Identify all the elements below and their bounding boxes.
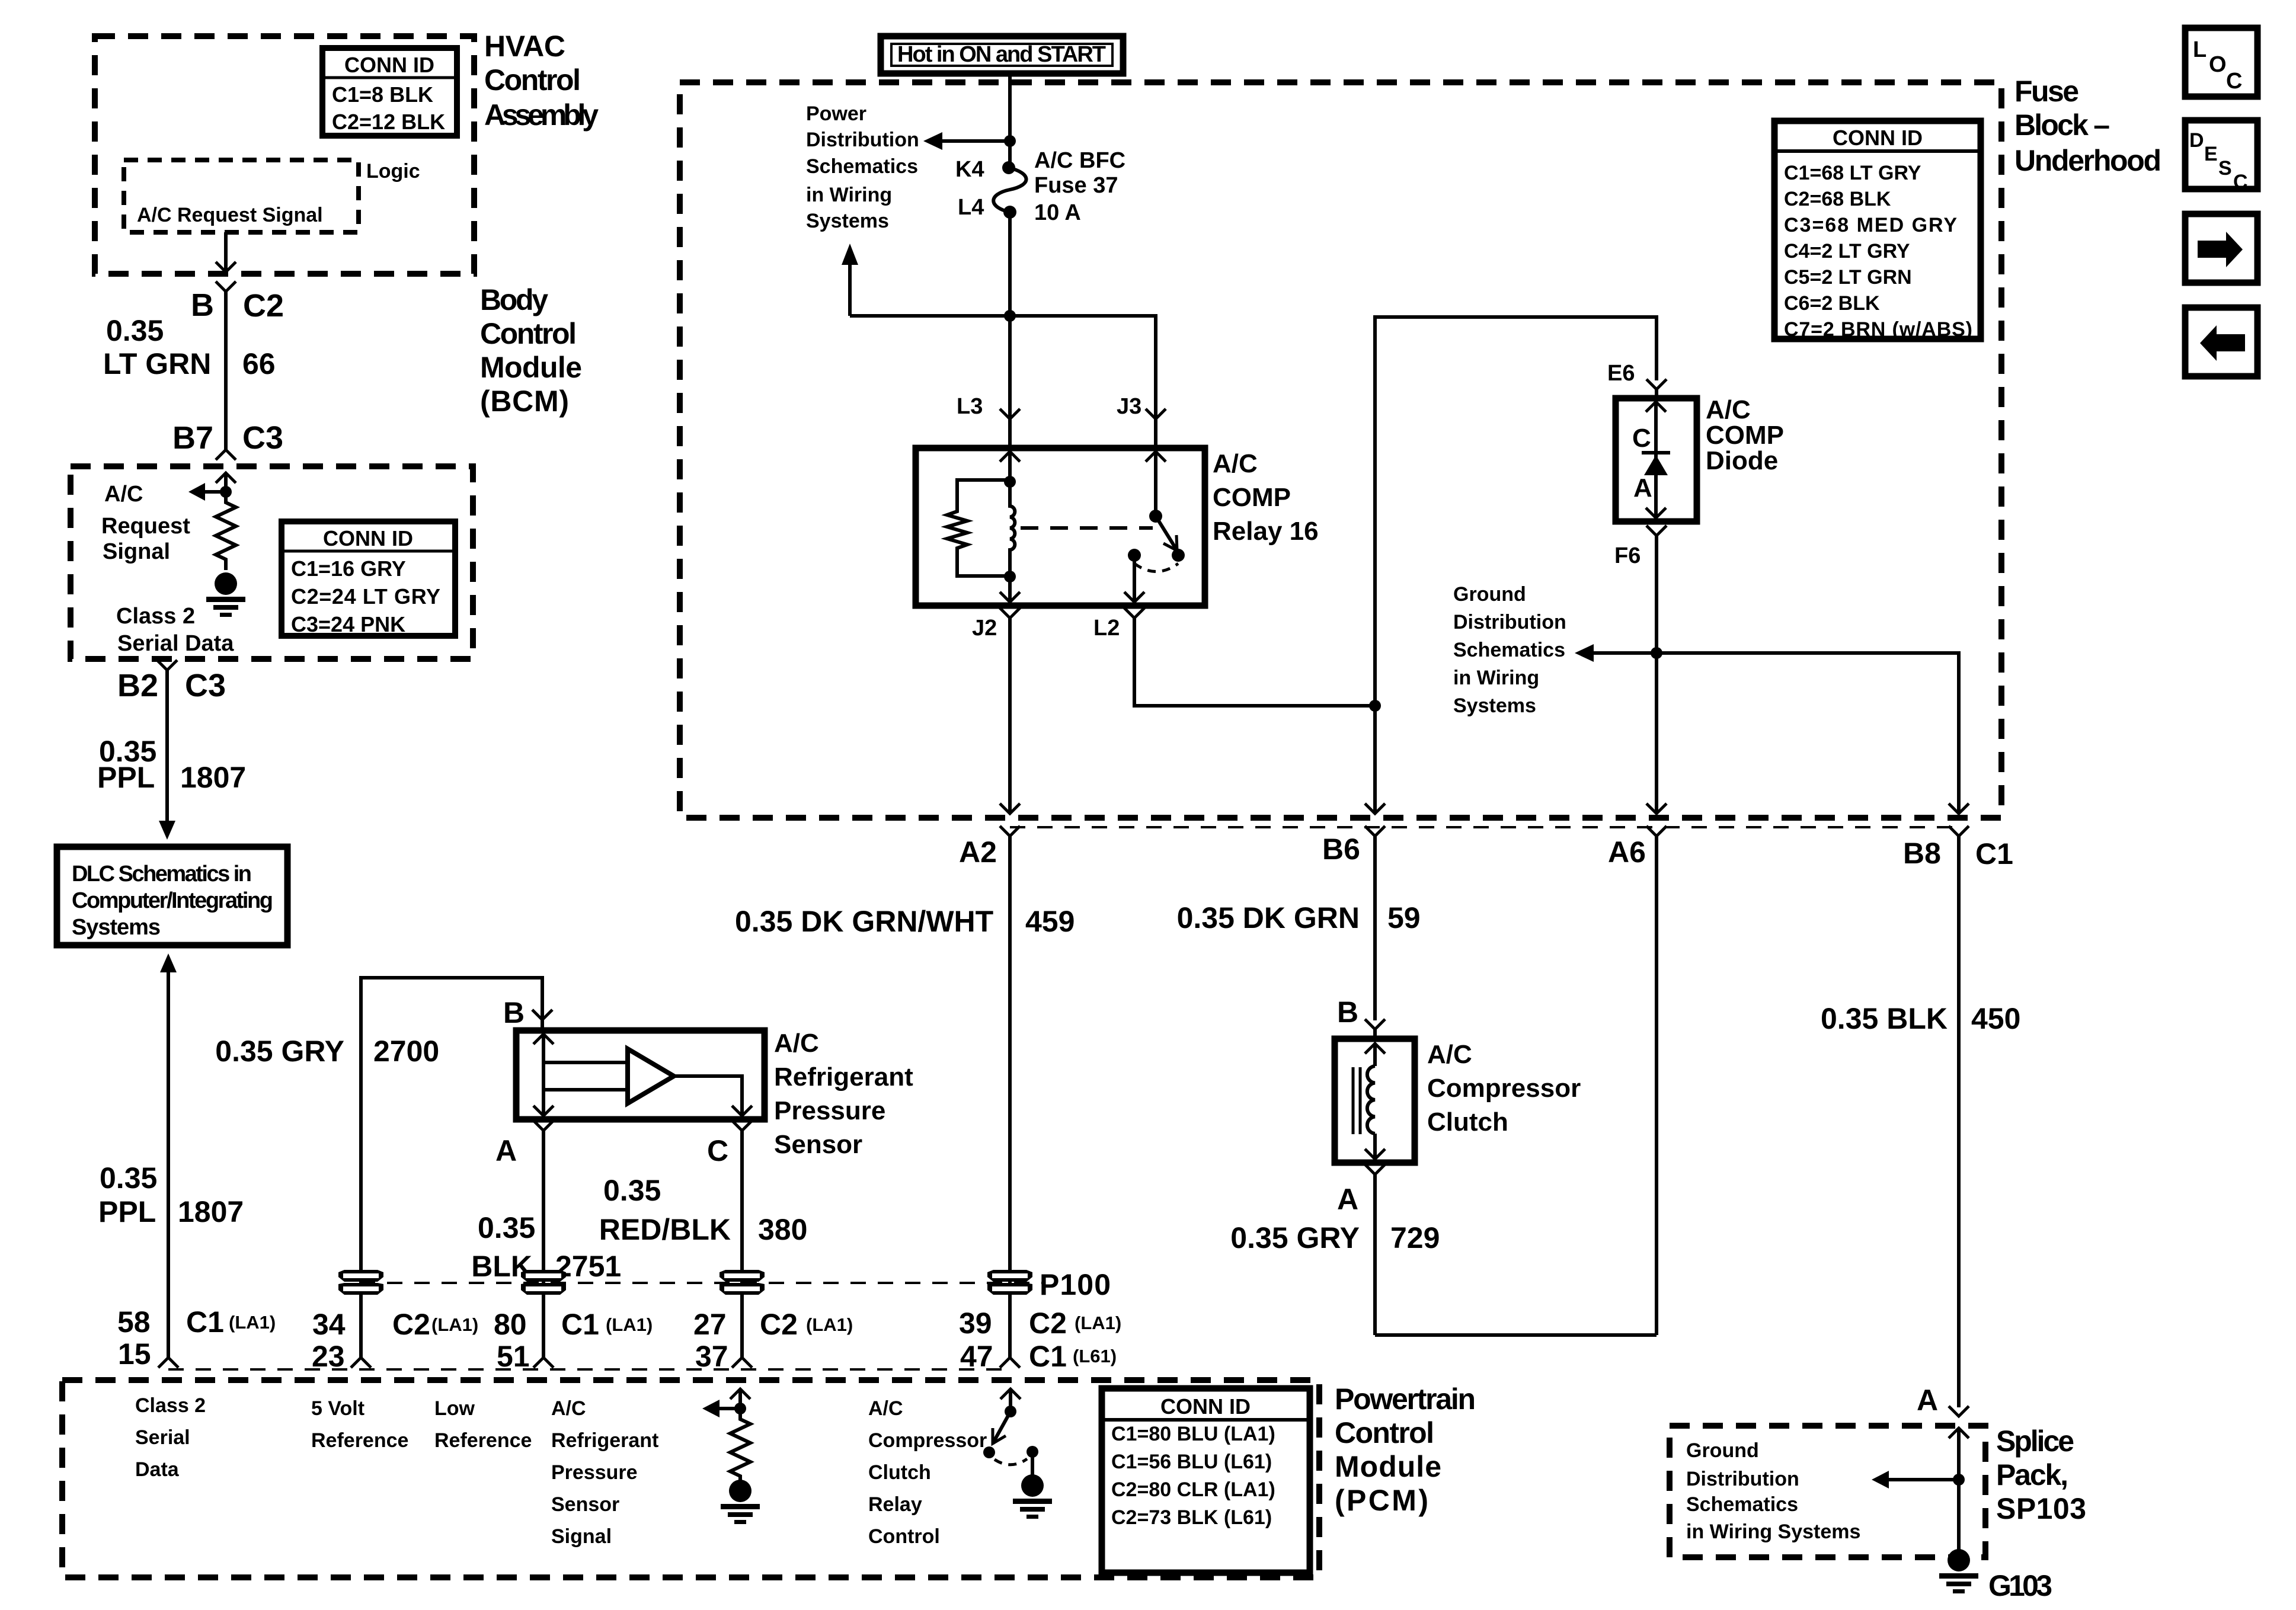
svg-text:Body: Body: [480, 283, 548, 316]
HVAC CONN ID table: [322, 48, 457, 136]
svg-text:Control: Control: [484, 63, 581, 97]
svg-text:C1: C1: [1029, 1340, 1067, 1373]
svg-text:(LA1): (LA1): [606, 1314, 653, 1335]
svg-text:C2: C2: [243, 288, 284, 324]
sensor amplifier triangle: [628, 1049, 674, 1103]
splice entry arrow: [1949, 1428, 1969, 1480]
svg-text:Pressure: Pressure: [774, 1096, 885, 1125]
wire fuse to lower junction: [1008, 212, 1012, 316]
wire label 0.35 BLK 2751: [471, 1211, 621, 1283]
svg-text:A/C: A/C: [868, 1397, 903, 1420]
svg-text:A/C: A/C: [774, 1029, 819, 1058]
svg-text:L2: L2: [1093, 616, 1120, 641]
relay coil bottom junction dot: [1004, 571, 1016, 582]
A/C COMP Relay 16 box: [916, 448, 1205, 606]
relay switch input arrow (J3): [1146, 452, 1166, 516]
svg-text:34: 34: [312, 1308, 346, 1341]
svg-text:27: 27: [693, 1308, 727, 1341]
wire L2 to B6 junction: [1134, 618, 1375, 706]
ground distribution arrow (splice): [1872, 1471, 1959, 1489]
svg-text:K4: K4: [955, 157, 984, 182]
svg-text:Refrigerant: Refrigerant: [774, 1062, 913, 1092]
svg-text:C2=80 CLR (LA1): C2=80 CLR (LA1): [1111, 1478, 1275, 1501]
svg-text:58: 58: [117, 1305, 151, 1339]
svg-text:15: 15: [118, 1337, 151, 1371]
clutch plates: [1353, 1067, 1360, 1134]
next page arrow icon: [2185, 214, 2257, 283]
switch blade arrow: [1156, 516, 1177, 550]
svg-text:Fuse 37: Fuse 37: [1034, 173, 1118, 198]
svg-text:C5=2 LT GRN: C5=2 LT GRN: [1784, 266, 1912, 289]
svg-text:in Wiring Systems: in Wiring Systems: [1686, 1521, 1860, 1543]
svg-text:0.35 GRY: 0.35 GRY: [1230, 1221, 1360, 1254]
svg-text:D: D: [2189, 129, 2204, 152]
connector A (splice): [1949, 1406, 1969, 1416]
svg-text:Compressor: Compressor: [1427, 1074, 1581, 1103]
svg-text:Distribution: Distribution: [1453, 611, 1566, 633]
PCM dashed box: [62, 1380, 1319, 1577]
svg-text:Sensor: Sensor: [551, 1493, 619, 1516]
svg-text:A: A: [495, 1134, 517, 1167]
svg-text:450: 450: [1971, 1002, 2020, 1035]
connector C1 (LA1) label: [561, 1308, 653, 1341]
wire label 0.35 DK GRN/WHT 459: [735, 905, 1075, 938]
fuse label A/C BFC Fuse 37 10 A: [1034, 148, 1125, 225]
switch pivot dot (PCM): [1005, 1406, 1016, 1417]
svg-text:23: 23: [312, 1340, 345, 1373]
A/C Compressor Clutch box: [1335, 1039, 1415, 1163]
HVAC Control Assembly dashed box: [95, 36, 474, 274]
junction dot: [220, 486, 232, 498]
svg-text:E6: E6: [1607, 361, 1635, 386]
junction dot F6/ground distribution: [1651, 647, 1662, 659]
svg-text:39: 39: [959, 1307, 992, 1340]
switch dashed arc (PCM): [994, 1459, 1027, 1465]
svg-text:Underhood: Underhood: [2014, 144, 2161, 177]
svg-text:C: C: [2233, 171, 2248, 193]
svg-text:C3: C3: [242, 420, 283, 456]
svg-text:A/C: A/C: [1706, 395, 1751, 424]
svg-text:A: A: [1633, 473, 1652, 502]
svg-text:C2=68 BLK: C2=68 BLK: [1784, 188, 1891, 210]
connector B7 / C3: [216, 450, 236, 460]
svg-text:51: 51: [497, 1340, 530, 1373]
sensor internal circuit: [533, 1034, 628, 1116]
relay coil: [1010, 482, 1015, 577]
svg-text:Schematics: Schematics: [1453, 639, 1565, 661]
wire clutch A to A6 riser: [1375, 1333, 1657, 1337]
A/C COMP Diode box: [1616, 398, 1697, 521]
svg-text:(LA1): (LA1): [806, 1314, 853, 1335]
switch dashed arc: [1134, 564, 1178, 572]
PCM label: [1335, 1382, 1476, 1517]
svg-text:Diode: Diode: [1706, 446, 1778, 475]
svg-text:C6=2 BLK: C6=2 BLK: [1784, 292, 1880, 315]
svg-text:C3=68 MED GRY: C3=68 MED GRY: [1784, 214, 1957, 236]
switch contact dots (PCM): [983, 1446, 995, 1458]
svg-text:Relay: Relay: [868, 1493, 922, 1516]
svg-text:PPL: PPL: [97, 761, 155, 794]
wire to G103: [1957, 1480, 1961, 1550]
connector L2: [1124, 608, 1144, 618]
connector at PCM pin 58/15: [158, 1358, 178, 1368]
svg-text:Refrigerant: Refrigerant: [551, 1429, 658, 1452]
svg-text:C1=8 BLK: C1=8 BLK: [332, 82, 433, 107]
Fuse Block - Underhood dashed box: [680, 82, 2001, 818]
svg-text:C3=24 PNK: C3=24 PNK: [291, 612, 405, 636]
ground (BCM): [206, 572, 245, 617]
svg-text:A: A: [1917, 1384, 1938, 1417]
ground distribution line to B8: [1575, 644, 1959, 814]
svg-text:C1: C1: [1975, 837, 2013, 870]
connector 34/23 (GRY): [351, 1358, 371, 1368]
A/C Request Signal text (BCM): [101, 482, 190, 564]
svg-text:Distribution: Distribution: [806, 129, 919, 151]
resistor branch (relay): [947, 480, 1010, 576]
wire junction down to L3: [1008, 316, 1012, 419]
clutch label: [1427, 1040, 1581, 1137]
svg-text:C2: C2: [1029, 1307, 1067, 1340]
svg-text:C2: C2: [392, 1308, 430, 1341]
svg-text:0.35 DK GRN/WHT: 0.35 DK GRN/WHT: [735, 905, 993, 938]
svg-text:(PCM): (PCM): [1335, 1484, 1428, 1517]
svg-text:47: 47: [960, 1340, 993, 1373]
Class 2 Serial Data text (PCM): [135, 1394, 206, 1481]
Splice Pack dashed box: [1670, 1426, 1985, 1557]
svg-text:Logic: Logic: [366, 160, 420, 183]
svg-text:Relay 16: Relay 16: [1213, 517, 1319, 546]
arrow at fuse bottom B6: [1365, 804, 1385, 814]
wire label 0.35 RED/BLK 380: [599, 1174, 808, 1246]
svg-text:Signal: Signal: [551, 1525, 612, 1548]
svg-text:37: 37: [695, 1340, 728, 1373]
connector A6: [1646, 826, 1667, 1335]
connector E6: [1646, 379, 1667, 398]
svg-text:L4: L4: [958, 195, 984, 220]
svg-text:0.35: 0.35: [106, 314, 164, 347]
svg-text:C: C: [707, 1134, 728, 1167]
wire label 0.35 DK GRN 59: [1177, 901, 1421, 934]
connector 39/47 (DK GRN/WHT): [1000, 1358, 1020, 1368]
5 Volt Reference text: [311, 1397, 408, 1452]
connector 80/51 (BLK): [533, 1358, 554, 1368]
wire label 0.35 LT GRN 66: [103, 314, 276, 380]
svg-text:Request: Request: [101, 514, 190, 539]
svg-text:SP103: SP103: [1996, 1492, 2086, 1525]
junction dot below fuse: [1004, 310, 1016, 322]
svg-text:L: L: [2193, 37, 2207, 62]
svg-text:10 A: 10 A: [1034, 200, 1081, 225]
svg-text:C1=56 BLU (L61): C1=56 BLU (L61): [1111, 1451, 1272, 1473]
ground G103: [1939, 1549, 1978, 1593]
svg-text:Reference: Reference: [434, 1429, 532, 1452]
svg-text:1807: 1807: [178, 1195, 244, 1228]
svg-text:PPL: PPL: [98, 1195, 156, 1228]
svg-text:66: 66: [242, 347, 276, 380]
connector C1 (LA1) label: [186, 1305, 276, 1339]
connector B2 / C3: [157, 660, 177, 821]
svg-text:0.35 DK GRN: 0.35 DK GRN: [1177, 901, 1360, 934]
svg-text:CONN ID: CONN ID: [1160, 1394, 1251, 1419]
connector F6: [1646, 526, 1667, 814]
A/C Refrigerant Pressure Sensor Signal text: [551, 1397, 658, 1548]
Class 2 Serial Data text: [116, 604, 234, 656]
connector 27/37 (RED/BLK): [732, 1358, 752, 1368]
wire from Hot box down: [1008, 73, 1012, 168]
svg-text:B2: B2: [117, 668, 158, 703]
svg-text:C2=24 LT GRY: C2=24 LT GRY: [291, 584, 440, 609]
connector A (sensor): [533, 1121, 554, 1358]
HVAC label: [484, 30, 599, 132]
junction dot L2/B6: [1369, 700, 1381, 712]
Ground Distribution Schematics text (fuse area): [1453, 583, 1566, 717]
svg-text:Clutch: Clutch: [1427, 1108, 1508, 1137]
svg-text:C4=2 LT GRY: C4=2 LT GRY: [1784, 240, 1910, 263]
svg-text:Distribution: Distribution: [1686, 1468, 1799, 1490]
wire label 0.35 GRY 2700: [215, 1035, 439, 1068]
svg-text:J2: J2: [972, 616, 997, 641]
svg-text:(L61): (L61): [1073, 1346, 1117, 1366]
svg-text:C2=12 BLK: C2=12 BLK: [332, 110, 445, 134]
svg-text:C7=2 BRN (w/ABS): C7=2 BRN (w/ABS): [1784, 318, 1972, 341]
svg-text:C1=68 LT GRY: C1=68 LT GRY: [1784, 162, 1921, 184]
svg-text:RED/BLK: RED/BLK: [599, 1213, 731, 1246]
svg-text:L3: L3: [957, 394, 983, 419]
sensor label: [774, 1029, 913, 1159]
svg-text:Module: Module: [480, 351, 582, 384]
sensor signal entry arrow (PCM): [730, 1389, 750, 1409]
svg-text:F6: F6: [1614, 543, 1641, 568]
svg-text:HVAC: HVAC: [484, 30, 565, 63]
svg-text:Systems: Systems: [1453, 694, 1536, 717]
A/C Refrigerant Pressure Sensor box: [516, 1030, 765, 1119]
svg-text:J3: J3: [1117, 394, 1141, 419]
svg-text:2751: 2751: [555, 1250, 621, 1283]
wire label 0.35 PPL 1807 (upper): [97, 735, 246, 794]
A/C request arrow up (inside BCM): [216, 473, 236, 492]
svg-text:P100: P100: [1040, 1268, 1111, 1301]
svg-text:Pack,: Pack,: [1996, 1458, 2068, 1491]
connector A (clutch): [1365, 1164, 1385, 1335]
svg-text:S: S: [2218, 157, 2232, 180]
P100 inline connector (DK GRN/WHT wire): [987, 1270, 1032, 1295]
ground (PCM clutch relay): [1013, 1474, 1052, 1519]
P100 dashed line: [360, 1282, 1043, 1284]
wire GRY 2700 riser: [361, 978, 542, 1358]
svg-text:Systems: Systems: [806, 210, 889, 232]
switch contact dots: [1128, 549, 1141, 562]
svg-text:380: 380: [758, 1213, 807, 1246]
A/C Compressor Clutch Relay Control text: [868, 1397, 987, 1548]
svg-text:LT GRN: LT GRN: [103, 347, 211, 380]
diode internal line and arrows: [1646, 402, 1666, 518]
wire: logic box to HVAC connector: [216, 232, 236, 272]
PCM CONN ID table: [1102, 1388, 1310, 1573]
svg-text:Compressor: Compressor: [868, 1429, 987, 1452]
svg-text:Low: Low: [434, 1397, 475, 1420]
resistor (PCM sensor signal): [730, 1409, 750, 1480]
svg-text:B6: B6: [1322, 833, 1360, 866]
Low Reference text: [434, 1397, 532, 1452]
previous page arrow icon: [2185, 308, 2257, 376]
BCM label: [480, 283, 582, 418]
Splice Pack label: [1996, 1425, 2086, 1525]
svg-text:A/C Request Signal: A/C Request Signal: [137, 204, 323, 226]
svg-text:Sensor: Sensor: [774, 1130, 862, 1159]
svg-text:Fuse: Fuse: [2014, 75, 2079, 108]
BCM CONN ID table: [282, 521, 455, 636]
svg-text:0.35 BLK: 0.35 BLK: [1821, 1002, 1948, 1035]
thin dashed line at PCM top: [168, 1368, 1002, 1371]
arrow at fuse bottom A6: [1646, 804, 1667, 814]
svg-text:(BCM): (BCM): [480, 385, 569, 418]
relay label: [1213, 449, 1319, 546]
sensor output wire: [674, 1076, 752, 1116]
thin dashed connector line A2-B8: [1010, 826, 1959, 828]
svg-text:(LA1): (LA1): [431, 1314, 478, 1335]
svg-text:Serial Data: Serial Data: [117, 631, 234, 656]
BCM dashed box: [71, 466, 473, 659]
svg-text:Module: Module: [1335, 1450, 1441, 1483]
Fuse block CONN ID table: [1774, 121, 1981, 341]
svg-text:Control: Control: [868, 1525, 940, 1548]
svg-text:Computer/Integrating: Computer/Integrating: [72, 888, 273, 913]
connector C2 (LA1) label: [760, 1308, 853, 1341]
svg-text:B: B: [191, 287, 214, 323]
svg-text:0.35: 0.35: [478, 1211, 535, 1244]
connector C (sensor): [732, 1121, 752, 1358]
svg-text:Hot in ON and START: Hot in ON and START: [897, 42, 1106, 67]
svg-text:A/C: A/C: [551, 1397, 586, 1420]
svg-text:Class 2: Class 2: [135, 1394, 206, 1417]
arrow to A/C Request Signal: [188, 483, 226, 501]
wire B6 vertical with top link: [1375, 317, 1657, 814]
svg-text:CONN ID: CONN ID: [1833, 126, 1923, 150]
Ground Distribution text (splice): [1686, 1439, 1860, 1543]
svg-text:Systems: Systems: [72, 915, 161, 940]
svg-text:(LA1): (LA1): [229, 1312, 276, 1333]
svg-text:B: B: [1337, 996, 1358, 1029]
svg-text:Serial: Serial: [135, 1426, 190, 1449]
svg-text:5 Volt: 5 Volt: [311, 1397, 364, 1420]
svg-text:Reference: Reference: [311, 1429, 408, 1452]
svg-text:O: O: [2209, 52, 2227, 77]
svg-text:A/C: A/C: [1427, 1040, 1472, 1069]
svg-text:Powertrain: Powertrain: [1335, 1382, 1476, 1416]
svg-text:C3: C3: [185, 668, 226, 703]
arrow up into DLC bottom: [160, 953, 177, 972]
switch blade arrow (PCM): [993, 1411, 1011, 1443]
arrow at fuse bottom B8: [1949, 804, 1969, 814]
connector C1 (L61) label: [1029, 1340, 1117, 1373]
svg-text:2700: 2700: [373, 1035, 439, 1068]
svg-text:459: 459: [1025, 905, 1075, 938]
connector B8: [1949, 826, 1969, 1407]
svg-text:0.35: 0.35: [603, 1174, 661, 1207]
connector J2: [1000, 608, 1020, 814]
svg-text:A/C BFC: A/C BFC: [1034, 148, 1125, 173]
relay L3 entry arrow: [1000, 452, 1020, 482]
power distribution up arrow: [842, 244, 1010, 316]
Power Distribution Schematics text: [806, 103, 919, 232]
ground (PCM sensor signal): [721, 1480, 760, 1524]
svg-text:Schematics: Schematics: [806, 155, 918, 178]
svg-text:A/C: A/C: [1213, 449, 1258, 478]
diode symbol: [1642, 453, 1670, 475]
Logic dashed box: [124, 160, 359, 232]
arrow to A/C Refrigerant text: [702, 1400, 740, 1417]
svg-text:A6: A6: [1608, 836, 1646, 869]
svg-text:0.35: 0.35: [100, 1161, 157, 1195]
junction dot (PCM sensor signal): [734, 1403, 746, 1414]
svg-text:COMP: COMP: [1213, 483, 1291, 512]
relay coil output arrow (J2): [1000, 577, 1020, 602]
svg-text:Clutch: Clutch: [868, 1461, 931, 1484]
wire label 0.35 BLK 450: [1821, 1002, 2020, 1035]
svg-text:C1: C1: [186, 1305, 224, 1339]
svg-text:Data: Data: [135, 1458, 180, 1481]
svg-text:B: B: [503, 996, 525, 1029]
junction dot (power tap): [1004, 135, 1016, 147]
junction dot (splice): [1953, 1474, 1965, 1486]
P100 inline connector (BLK wire): [521, 1270, 566, 1295]
svg-text:A: A: [1337, 1183, 1358, 1216]
switch pivot dot: [1149, 510, 1162, 523]
svg-text:0.35 GRY: 0.35 GRY: [215, 1035, 344, 1068]
fuse 37 element: [993, 161, 1026, 219]
wire contact to ground (PCM): [1031, 1452, 1034, 1478]
Fuse Block label: [2014, 75, 2161, 177]
svg-text:Block –: Block –: [2014, 108, 2110, 142]
P100 inline connector (RED/BLK wire): [720, 1270, 765, 1295]
relay coil top junction dot: [1004, 476, 1016, 488]
svg-text:Assembly: Assembly: [484, 98, 599, 132]
relay switch output arrow (L2): [1124, 555, 1144, 602]
svg-text:B8: B8: [1903, 837, 1941, 870]
svg-text:C1=16 GRY: C1=16 GRY: [291, 556, 406, 581]
svg-text:in Wiring: in Wiring: [806, 184, 892, 206]
P100 inline connector (GRY wire): [338, 1270, 383, 1295]
svg-text:Schematics: Schematics: [1686, 1493, 1798, 1516]
svg-text:729: 729: [1390, 1221, 1440, 1254]
wire PPL 1807 down to PCM: [167, 972, 170, 1358]
DESC icon box: [2185, 120, 2257, 193]
svg-text:C: C: [1632, 424, 1651, 453]
svg-text:E: E: [2204, 143, 2218, 165]
connector C2 (LA1) label: [1029, 1307, 1121, 1340]
svg-text:Control: Control: [480, 317, 577, 350]
wire label 0.35 GRY 729: [1230, 1221, 1440, 1254]
svg-text:Ground: Ground: [1453, 583, 1526, 606]
svg-text:80: 80: [494, 1308, 527, 1341]
connector L3: [1000, 409, 1020, 448]
DLC Schematics box: [57, 847, 287, 945]
svg-text:A/C: A/C: [104, 482, 143, 507]
svg-text:CONN ID: CONN ID: [344, 53, 434, 77]
svg-text:C2=73 BLK (L61): C2=73 BLK (L61): [1111, 1506, 1272, 1529]
clutch coil internal: [1365, 1044, 1385, 1159]
wire label 0.35 PPL 1807 (lower): [98, 1161, 244, 1228]
svg-text:DLC Schematics in: DLC Schematics in: [72, 862, 252, 886]
clutch relay control entry arrow (PCM): [1000, 1389, 1021, 1411]
svg-text:1807: 1807: [180, 761, 246, 794]
resistor (BCM A/C request pull-down): [216, 492, 236, 570]
DLC text: [72, 862, 273, 940]
svg-text:in Wiring: in Wiring: [1453, 667, 1539, 689]
connector A2: [1000, 826, 1020, 1358]
svg-text:C2: C2: [760, 1308, 798, 1341]
diode label: [1706, 395, 1784, 475]
